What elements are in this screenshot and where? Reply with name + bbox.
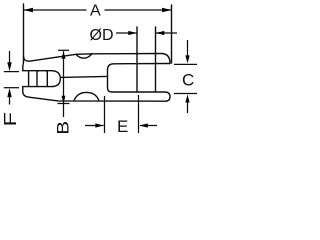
wire dimension line A [24, 9, 172, 11]
wire C arrow stem top [187, 40, 189, 56]
svg-text:ØD: ØD [90, 27, 114, 44]
wire OD arrow line right [156, 32, 177, 34]
wire E extension left [104, 96, 106, 133]
svg-text:E: E [117, 117, 128, 136]
svg-text:A: A [90, 3, 101, 20]
arrowhead A left [24, 8, 34, 12]
arrowhead C up [185, 95, 189, 103]
arrowhead B up [62, 51, 66, 59]
wire B tick bottom [58, 103, 70, 105]
wire B tick top [58, 49, 69, 51]
wire top plate underside [23, 64, 170, 102]
wire barrel right side / OD extension [155, 27, 157, 92]
arrowhead OD left [128, 31, 137, 35]
wire E arrow line right [140, 125, 157, 127]
wire part top outline [24, 54, 171, 64]
wire OD arrow line left [116, 32, 137, 34]
wire chain link in slot [37, 71, 47, 87]
wire E extension right [138, 95, 140, 133]
wire F extension bottom [4, 87, 19, 89]
wire barrel left side / OD extension [136, 27, 138, 92]
wire F extension top [4, 71, 19, 73]
wire left face lip [22, 62, 25, 71]
arrowhead A right [162, 8, 172, 12]
svg-text:B: B [54, 121, 73, 135]
wire C tick bottom [174, 93, 197, 95]
wire B dimension line [63, 51, 65, 117]
wire C arrow stem bottom [187, 102, 189, 114]
wire C tick top [174, 63, 197, 65]
wire mid joint line [60, 76, 107, 77]
svg-text:F: F [1, 112, 21, 127]
arrowhead C down [185, 55, 189, 63]
wire slot lip [28, 71, 30, 87]
wire F arrow stem top [9, 51, 11, 63]
wire F arrow stem bottom [9, 97, 11, 105]
wire bottom dome joint [74, 92, 99, 100]
arrowhead E left [139, 123, 148, 127]
wire E arrow line left [85, 125, 104, 127]
arrowhead F up [7, 88, 11, 97]
svg-text:C: C [182, 71, 194, 90]
wire top dip joint [76, 54, 92, 58]
wire extension line A-left / part left edge [23, 4, 25, 62]
wire slot outline [23, 71, 61, 87]
arrowhead F down [7, 62, 11, 71]
arrowhead OD right [156, 31, 165, 35]
wire extension line A-right [171, 5, 173, 63]
arrowhead B down [62, 96, 66, 104]
arrowhead E right [95, 123, 104, 127]
